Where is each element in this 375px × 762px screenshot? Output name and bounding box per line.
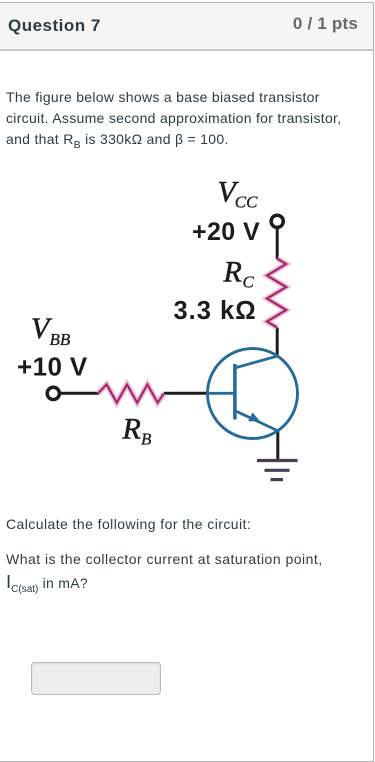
svg-text:+20 V: +20 V	[192, 218, 260, 246]
svg-text:R: R	[223, 256, 242, 289]
svg-text:3.3 kΩ: 3.3 kΩ	[174, 297, 257, 325]
svg-text:C: C	[243, 273, 255, 292]
svg-text:+10 V: +10 V	[17, 352, 88, 382]
svg-text:CC: CC	[235, 193, 258, 212]
svg-text:B: B	[141, 429, 152, 448]
svg-text:BB: BB	[50, 330, 71, 349]
svg-text:R: R	[122, 412, 141, 445]
